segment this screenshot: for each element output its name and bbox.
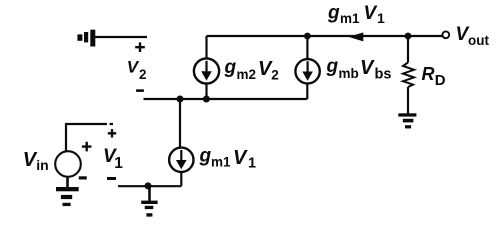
svg-text:1: 1 xyxy=(248,155,256,171)
svg-text:bs: bs xyxy=(375,67,392,83)
svg-text:V: V xyxy=(364,3,378,24)
svg-text:mb: mb xyxy=(339,66,359,81)
svg-text:V: V xyxy=(360,57,375,79)
svg-text:V: V xyxy=(233,147,248,169)
svg-text:g: g xyxy=(326,56,339,77)
svg-text:g: g xyxy=(199,145,212,166)
svg-text:m1: m1 xyxy=(211,155,231,170)
svg-text:in: in xyxy=(36,157,48,173)
svg-text:out: out xyxy=(468,33,489,48)
svg-text:2: 2 xyxy=(139,67,147,82)
svg-text:m2: m2 xyxy=(237,67,257,82)
svg-text:D: D xyxy=(435,72,446,89)
svg-text:1: 1 xyxy=(377,10,385,26)
svg-text:2: 2 xyxy=(271,67,279,82)
svg-text:g: g xyxy=(327,2,340,23)
svg-text:g: g xyxy=(224,57,237,78)
svg-text:V: V xyxy=(127,58,140,77)
svg-text:m1: m1 xyxy=(340,11,360,26)
svg-text:R: R xyxy=(422,64,435,84)
svg-text:1: 1 xyxy=(114,155,123,172)
